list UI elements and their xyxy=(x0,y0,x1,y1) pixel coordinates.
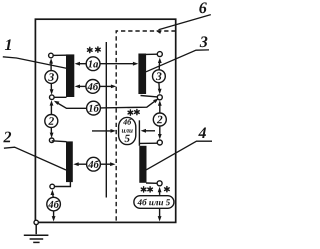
label oval 4b ili 5 (middle) xyxy=(119,117,136,144)
node top-left terminal xyxy=(49,53,54,58)
center bus wire xyxy=(105,42,107,198)
arrow pair 2 (right) xyxy=(159,105,161,134)
wire Q4 top terminal xyxy=(139,142,158,144)
arrow pair 3 (right) xyxy=(158,63,161,89)
arrow pair 4b (lower-left) xyxy=(52,194,55,217)
node right T4 top xyxy=(157,140,162,145)
source circle 3 (left) xyxy=(45,71,58,84)
asterisks above middle oval xyxy=(128,110,133,115)
arrow pair 3 (left) xyxy=(50,63,52,91)
node ground junction xyxy=(34,220,38,224)
asterisks lower-right row xyxy=(141,187,146,192)
node right T4 bottom xyxy=(157,181,162,186)
label 2 with leader xyxy=(3,132,11,143)
asterisks above 1a xyxy=(88,47,93,52)
source circle 2 (left) xyxy=(45,115,58,128)
electrode bar Q2 (bottom-left) xyxy=(66,141,73,182)
wire Q4 gate line xyxy=(138,120,140,146)
wire arrow into oval left xyxy=(92,130,112,132)
node left T2 bottom xyxy=(50,184,55,189)
electrode bar Q1 (top-left) xyxy=(66,54,74,97)
arrow pair lower-right xyxy=(159,191,161,216)
wire Q1 bottom terminal xyxy=(52,96,67,98)
source circle 3 (right) xyxy=(153,70,166,83)
node left mid terminal xyxy=(50,95,55,100)
wire Q3 top terminal xyxy=(146,53,158,55)
arrow pair 2 (left) xyxy=(50,105,52,133)
ground xyxy=(24,222,49,242)
label circle 1b with arrows xyxy=(87,101,101,115)
wire Q2 bottom terminal xyxy=(52,182,70,187)
source circle 2 (right) xyxy=(153,113,166,126)
label circle 4b (lower mid) with arrows xyxy=(87,157,101,171)
wire arrow from oval to Q4 gate xyxy=(145,130,155,132)
wire Q4 bottom terminal xyxy=(146,182,157,184)
label 3 with leader xyxy=(200,36,208,47)
label 6 with leader arrow xyxy=(199,2,207,13)
label circle 4b (mid) with arrows xyxy=(86,80,100,94)
device outline rectangle xyxy=(35,19,175,222)
dashed boundary 6 xyxy=(116,31,176,222)
label 1 with leader xyxy=(5,39,11,50)
wire Q1 top terminal xyxy=(51,54,67,56)
node left T2 top xyxy=(49,138,54,143)
node top-right terminal xyxy=(157,52,162,57)
source circle 4b (lower-left) xyxy=(47,197,61,211)
label circle 1a with arrows xyxy=(86,57,100,71)
label oval 4b ili 5 (bottom-right) xyxy=(134,196,174,209)
electrode bar Q4 (bottom-right) xyxy=(139,146,146,183)
electrode bar Q3 (top-right) xyxy=(138,54,146,95)
label 4 with leader xyxy=(198,128,206,139)
node right mid terminal xyxy=(157,95,162,100)
wire Q2 top terminal xyxy=(52,140,67,143)
wire Q3 bottom terminal xyxy=(141,96,158,97)
